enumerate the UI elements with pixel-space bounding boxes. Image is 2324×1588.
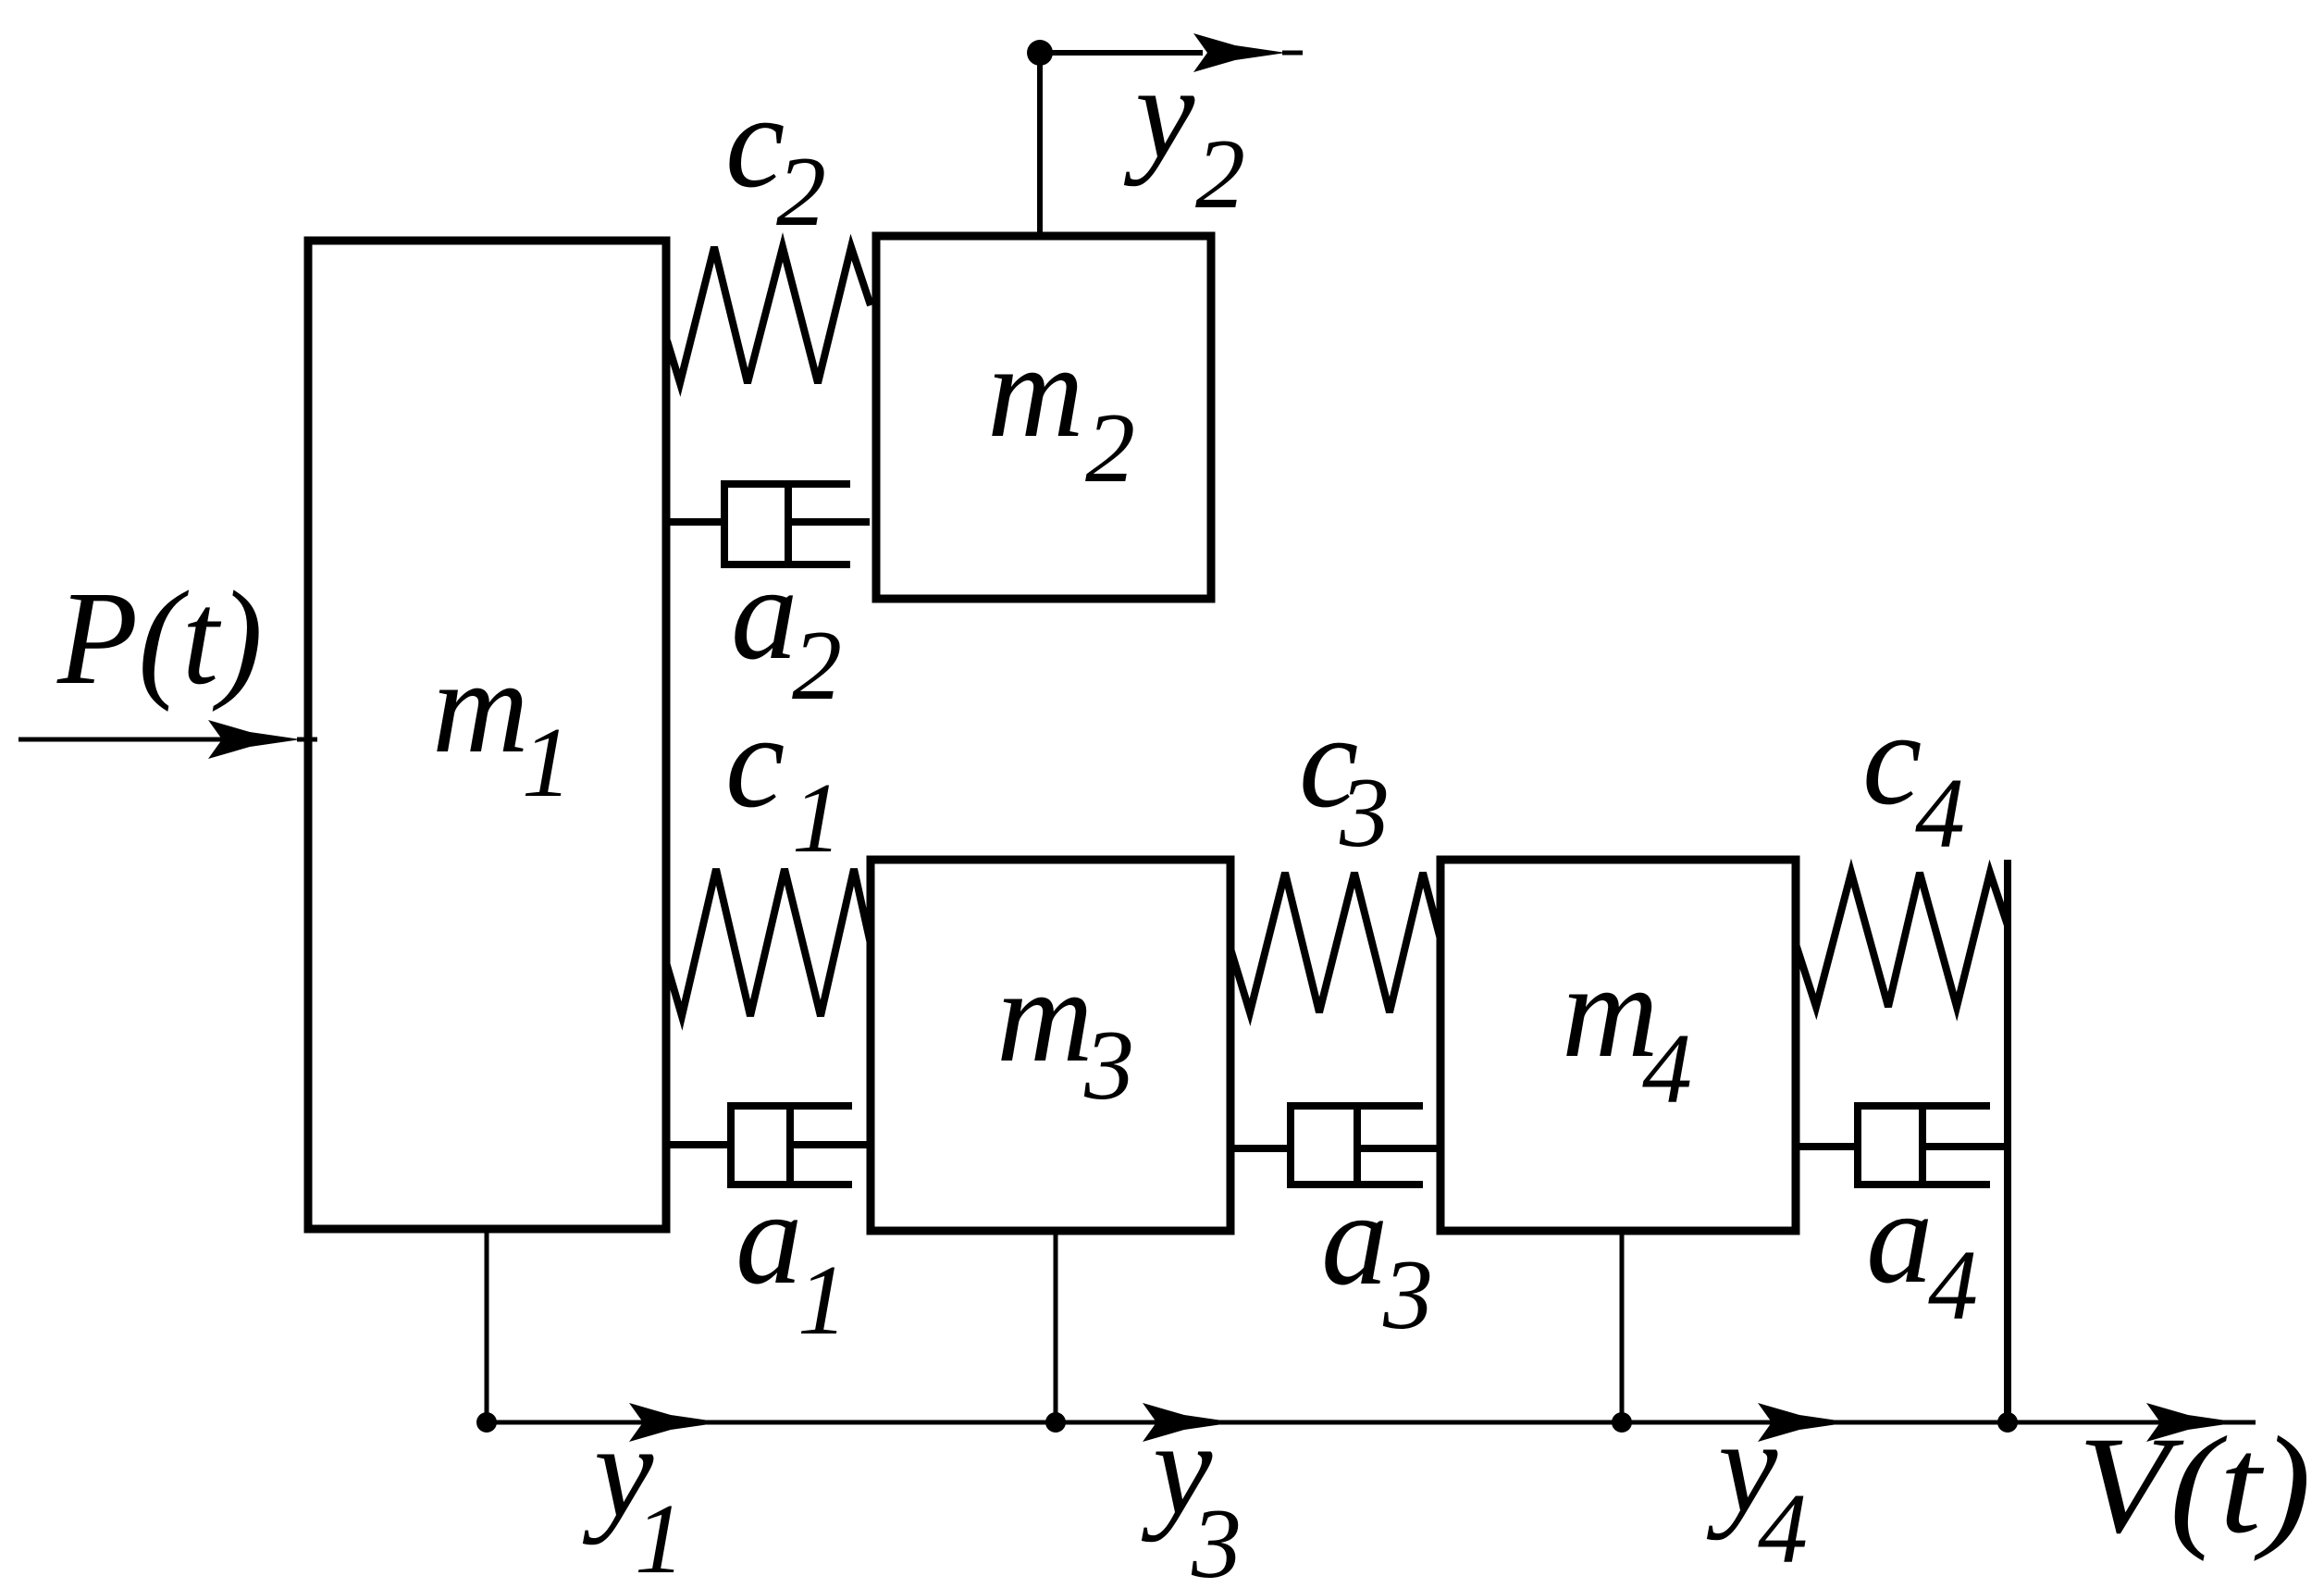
svg-text:2: 2	[1085, 393, 1135, 503]
mass m3 box	[871, 860, 1230, 1231]
damper a4	[1796, 1106, 2005, 1185]
damper a2	[667, 484, 870, 564]
arrow y4 direction	[1758, 1403, 1867, 1442]
arrow y3 direction	[1143, 1403, 1252, 1442]
svg-text:m: m	[996, 942, 1094, 1090]
svg-text:V(t): V(t)	[2078, 1408, 2311, 1562]
mass m1 box	[308, 241, 666, 1229]
damper a3	[1230, 1106, 1438, 1185]
svg-text:2: 2	[1195, 119, 1245, 230]
svg-text:4: 4	[1758, 1474, 1808, 1584]
node y1 junction	[476, 1412, 497, 1433]
svg-text:a: a	[1321, 1165, 1389, 1313]
node y3 junction	[1045, 1412, 1066, 1433]
damper a1	[664, 1106, 868, 1185]
svg-text:1: 1	[797, 1246, 847, 1356]
svg-text:2: 2	[776, 137, 826, 247]
svg-text:3: 3	[1382, 1240, 1433, 1350]
svg-text:4: 4	[1915, 759, 1965, 869]
spring c4	[1796, 873, 2008, 1007]
arrow y1 direction	[629, 1403, 738, 1442]
spring c2	[667, 247, 871, 383]
wire m3 bottom drop	[1054, 1231, 1058, 1422]
svg-text:2: 2	[792, 611, 842, 721]
mass m2 box	[876, 236, 1211, 599]
svg-text:1: 1	[522, 708, 572, 818]
svg-text:3: 3	[1339, 758, 1390, 868]
svg-text:m: m	[987, 317, 1084, 465]
svg-text:a: a	[731, 540, 798, 688]
svg-text:m: m	[432, 633, 529, 781]
right wall line	[2004, 860, 2011, 1422]
svg-text:3: 3	[1083, 1011, 1134, 1121]
node y4 junction	[1612, 1412, 1632, 1433]
svg-text:4: 4	[1642, 1014, 1692, 1124]
svg-text:a: a	[1866, 1163, 1934, 1311]
svg-text:3: 3	[1191, 1489, 1242, 1588]
svg-text:1: 1	[635, 1484, 685, 1588]
spring c3	[1230, 873, 1440, 1012]
svg-text:1: 1	[792, 763, 842, 874]
mass m4 box	[1440, 860, 1796, 1231]
svg-text:y: y	[1123, 39, 1195, 187]
node y2 arrow assembly	[1027, 33, 1303, 239]
arrow V(t) direction	[2146, 1403, 2256, 1442]
node wall junction	[1997, 1412, 2018, 1433]
arrow P(t)	[19, 720, 317, 759]
wire m1 bottom drop	[485, 1229, 489, 1422]
wire m4 bottom drop	[1620, 1231, 1625, 1422]
svg-text:P(t): P(t)	[56, 564, 263, 713]
svg-text:c: c	[725, 688, 785, 836]
spring c1	[666, 869, 871, 1016]
wire baseline	[487, 1421, 2243, 1425]
svg-text:4: 4	[1928, 1231, 1978, 1341]
svg-text:a: a	[736, 1164, 803, 1312]
svg-text:c: c	[1862, 685, 1922, 833]
